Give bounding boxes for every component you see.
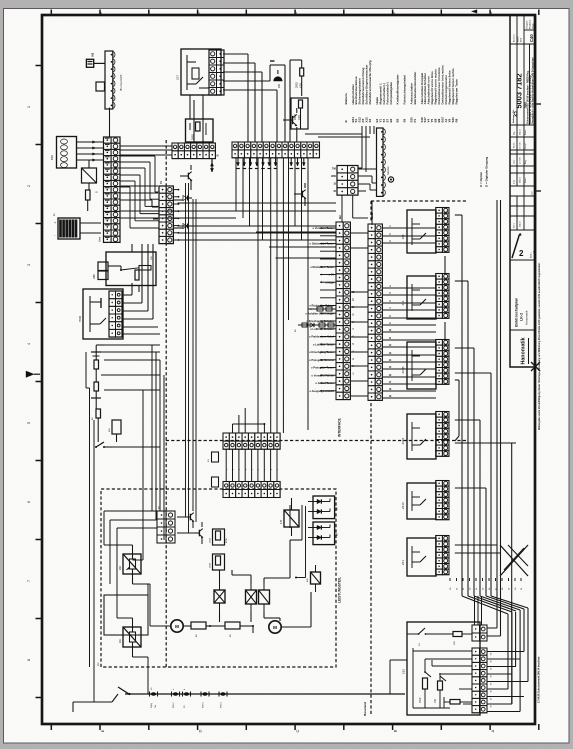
title block company logo [521,337,529,364]
legend text list [344,60,458,104]
input stub diode row 2 [295,323,336,332]
diode stub right of B3 lower [173,224,192,229]
fuse F1 [150,687,158,708]
resistor bottom in 182 [444,697,472,708]
wires 237 down to IB strip [194,100,203,143]
terminal strip T30 [331,166,358,196]
transistor right of strip X2 [294,183,306,206]
terminal strip X5 upper [223,433,280,449]
terminal strip of module 165 [436,208,449,253]
title block revision rows text [513,129,534,228]
wire bus strip B1 to B3 [121,186,240,218]
driver square D1 [214,584,225,612]
wires around mosfets [104,511,157,657]
title block outline [510,15,536,367]
terminal strip B7 [157,505,175,543]
relay box 7882 [78,289,123,339]
terminal strip of 7882 [109,291,122,337]
left margin ticks [36,66,42,698]
switch lower left [95,442,112,448]
terminal strip of module 2616 [436,481,449,520]
right margin dash upper [537,103,542,105]
terminal strip X2 long [232,142,320,158]
legend option note [479,157,489,187]
title block revision mark 2 with pencil [512,233,536,258]
resistor KSB 15A box [291,98,308,129]
terminal strip IB [172,143,220,159]
wire bundle 237 to bus [223,54,277,142]
wire k blocks vertical [295,506,306,579]
wire crossing X right [500,545,528,576]
wire bus to interface B2 [153,203,336,258]
resistor 1518 MTA lower [210,554,225,570]
resistor 260 in 182 [453,632,472,646]
transistor Q top [283,108,297,142]
wires funnel into right bundle [390,596,528,694]
wires modules right side [372,201,516,596]
top margin ticks [51,10,539,16]
dashed box LEISTUNGSTEIL [96,489,342,667]
interface strip B2 [336,215,350,400]
box with trimmer 290 [106,252,156,286]
connector BPA [50,137,77,169]
module box 165 [401,210,436,253]
terminal strip of 237 [209,50,224,95]
connector KB [86,53,105,68]
control box 182 [402,622,481,715]
interface strip B2.1 [368,213,382,401]
left components capacitor [92,409,101,442]
fuse F4 [201,692,209,709]
stub arrows right of B3 [173,189,179,241]
fold cross mark right margin [531,362,540,371]
service connector [377,128,394,196]
transistor under strip IB [180,165,192,190]
relay K7 left [82,160,97,190]
wires left components to center [86,345,164,702]
terminal strip in 182 [472,648,487,713]
wires legend down to T30 [305,126,374,222]
transistor pair right of B7 upper [177,506,194,528]
module box 2618 [401,414,436,459]
ground arrows under strip X2 [236,158,305,169]
top margin fold arrow [472,10,478,13]
resistor 152 [434,681,443,708]
box X88 pair [92,262,108,280]
dashed boundary vertical [165,140,167,667]
mosfet 262 [119,545,141,584]
left components resistor group 1 [91,345,104,382]
wires BPA to strip B1 [77,141,104,162]
diode block K1 [308,496,339,519]
terminal strip of module 2618 [436,412,449,457]
wires between X5 and X6 [226,449,279,482]
input stub diode row 1 [308,307,336,311]
wires 7882 to interface [122,244,160,334]
switch contact top in 182 [407,628,453,646]
fuse F3 [183,688,191,708]
resistor box 290 above IB strip [186,95,214,142]
fuse F2 [172,688,180,708]
bottom margin ticks [51,724,539,730]
switch 152a in 182 [439,673,446,681]
horn 290 [270,61,285,142]
module box 461 [401,276,436,319]
title block grid lines [510,15,536,330]
motor M1 [150,620,183,632]
wire GPS connector to strip B1 [109,108,111,137]
terminal strip of module 267B [436,340,449,385]
small boxes left of X5X6 [208,452,219,487]
input stubs with labels left of B2 [305,226,336,393]
small box 460a [109,420,121,442]
terminal cells top in 182 [472,625,487,641]
legend code row [344,117,458,123]
wires trimmer box [108,244,139,292]
fuse F5 [219,692,227,709]
resistor below relay K7 [86,190,91,211]
top margin zone letters [98,11,493,14]
wires power rail [148,447,302,694]
wires B21 to modules [382,226,436,398]
module box 261 [401,538,436,576]
terminal strip of module 261 [436,536,449,575]
diode block K2 [308,522,339,545]
small box 460b [307,565,321,592]
resistor KSB 230 [290,60,304,142]
wires motor circuit [209,540,311,633]
dashed boundary horizontal mid [166,440,466,442]
heater R1 [183,622,210,637]
title block document title [515,298,529,327]
battery Uwe [53,213,101,239]
main supply wire bottom [73,687,405,712]
terminal strip of module 461 [436,274,449,319]
module box 2616 [401,483,436,519]
switch 7519a in 182 [424,671,431,677]
title block header small text [513,19,535,42]
module output labels row [450,578,523,590]
wires under top strips descending [236,158,308,430]
scan noise overlay [0,0,1,1]
left margin centerline arrow [26,371,34,377]
inner wires 182 [413,648,472,708]
contactor 470 [280,498,299,536]
left components resistor group 2 [91,382,101,409]
wires from 182 strips to right bundle [487,200,528,712]
terminal strip X6 lower [223,482,280,498]
mosfet 261 [119,618,141,657]
title block confidentiality column [524,57,535,124]
wires strip1 to IB strip [120,146,172,155]
bottom margin zone letters [100,729,495,732]
wires above X5 [233,370,284,433]
resistor 1518 MTA upper [210,529,229,545]
module box 267B [401,342,436,389]
staircase wires B1 to B3 [120,156,159,228]
driver square D2 [246,584,257,612]
wires T30 to service [358,169,377,191]
double arrow under strip IB [210,159,213,172]
right margin dash lower [537,190,542,192]
dashed boundary modules top [371,200,466,202]
connector IB ohne GPS [96,51,123,109]
title block drawing number 5003 7182 [514,74,524,118]
heater R2 [210,622,253,637]
left margin zone numbers [27,106,31,661]
right bundle verticals [497,200,528,712]
motor M2 [269,621,281,633]
transistor pair right of B7 lower [177,522,203,544]
diode stub right of B3 upper [173,196,192,201]
terminal strip B3 [159,180,173,243]
long verticals transistors to B7 [186,183,197,533]
terminal strip B1 [96,137,121,242]
relay box 237 [176,49,222,95]
wire labels right of 182 [491,652,493,708]
resistor 7519 [419,678,428,708]
links between B2 and B21 [350,233,368,396]
dashed boundary modules left [370,201,372,716]
driver square D3 [259,584,270,612]
